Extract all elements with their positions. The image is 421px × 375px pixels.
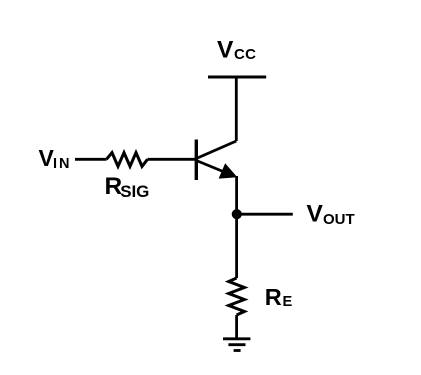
- svg-text:SIG: SIG: [120, 182, 149, 201]
- resistor RSIG: [107, 153, 148, 167]
- svg-text:IN: IN: [53, 156, 70, 172]
- svg-text:V: V: [217, 37, 234, 64]
- wire VIN to resistor RSIG: [75, 158, 107, 161]
- transistor Q1 emitter lead with arrow: [196, 161, 236, 179]
- svg-text:OUT: OUT: [323, 211, 355, 228]
- svg-text:E: E: [283, 294, 293, 310]
- junction node dot: [232, 209, 242, 219]
- node VOUT label: [307, 201, 355, 228]
- svg-text:R: R: [265, 284, 282, 310]
- label RE: [265, 284, 293, 310]
- svg-text:V: V: [307, 201, 324, 228]
- wire node to VOUT: [237, 213, 293, 216]
- wire RE to ground: [235, 315, 238, 339]
- node VIN label: [39, 145, 70, 172]
- wire emitter to output node: [235, 176, 238, 214]
- power rail VCC: [208, 76, 266, 79]
- wire RSIG to base: [148, 158, 197, 161]
- transistor Q1 collector lead: [196, 141, 236, 159]
- wire node to resistor RE: [235, 214, 238, 278]
- ground: [223, 339, 250, 351]
- wire collector to VCC rail: [235, 76, 238, 142]
- node VCC label: [217, 37, 256, 64]
- svg-text:CC: CC: [234, 46, 256, 63]
- label RSIG: [105, 173, 150, 201]
- resistor RE: [229, 278, 245, 315]
- transistor Q1 base bar: [195, 140, 198, 181]
